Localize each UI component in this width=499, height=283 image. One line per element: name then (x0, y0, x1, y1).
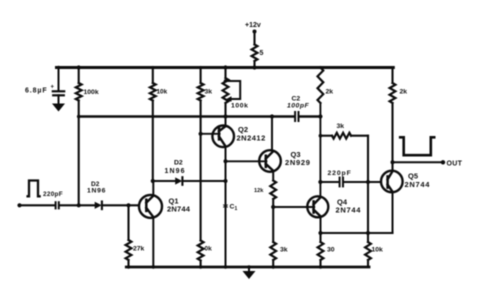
svg-text:2k: 2k (400, 89, 408, 96)
svg-text:3k: 3k (280, 247, 288, 254)
svg-text:220pF: 220pF (43, 191, 63, 198)
svg-text:10k: 10k (372, 247, 384, 254)
svg-text:2N744: 2N744 (336, 206, 362, 215)
svg-text:2N744: 2N744 (405, 180, 431, 189)
svg-text:5: 5 (260, 50, 264, 57)
svg-text:3k: 3k (337, 123, 345, 130)
svg-text:1N96: 1N96 (87, 188, 106, 195)
svg-text:10k: 10k (157, 89, 168, 96)
svg-text:100k: 100k (84, 89, 99, 96)
svg-text:27k: 27k (133, 246, 145, 253)
svg-text:OUT: OUT (447, 161, 463, 168)
svg-text:2N744: 2N744 (167, 205, 191, 214)
svg-text:+12v: +12v (245, 22, 261, 29)
svg-text:∗: ∗ (222, 202, 229, 211)
svg-text:30: 30 (327, 247, 335, 254)
svg-text:6.8µF: 6.8µF (25, 88, 48, 95)
svg-text:100k: 100k (231, 103, 249, 110)
svg-text:C2: C2 (292, 96, 301, 103)
svg-text:3k: 3k (205, 89, 213, 96)
svg-text:100pF: 100pF (287, 103, 309, 110)
svg-text:1: 1 (235, 206, 238, 212)
svg-text:+: + (51, 85, 55, 91)
svg-text:1N96: 1N96 (165, 168, 186, 175)
svg-text:2N929: 2N929 (285, 158, 311, 167)
svg-text:2N2412: 2N2412 (237, 134, 266, 143)
svg-text:D2: D2 (174, 160, 183, 167)
svg-text:12k: 12k (254, 188, 264, 194)
svg-text:0k: 0k (205, 246, 213, 253)
svg-text:220pF: 220pF (328, 170, 352, 177)
svg-text:2k: 2k (326, 89, 334, 96)
